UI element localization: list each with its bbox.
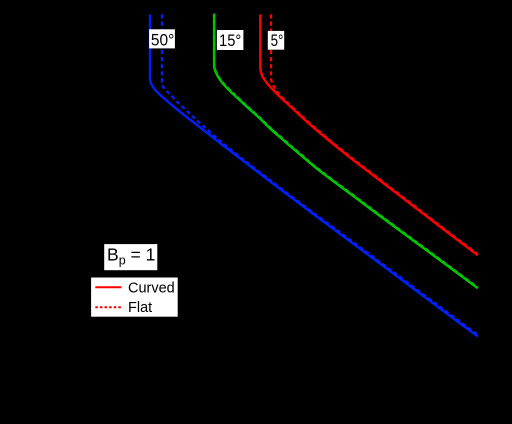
legend entry Curved — [95, 280, 174, 296]
curve: Curved solid blue alpha=50deg — [150, 14, 478, 336]
svg-text:Bp = 1: Bp = 1 — [107, 245, 155, 268]
legend box — [91, 278, 178, 317]
svg-text:50°: 50° — [151, 31, 174, 49]
curve: Flat dashed blue alpha=50deg — [162, 14, 478, 334]
label 5deg — [268, 31, 284, 50]
legend entry Flat — [95, 300, 152, 316]
curve: Flat dashed green alpha=15deg (overlaps solid) — [214, 14, 478, 288]
svg-text:Flat: Flat — [128, 300, 152, 316]
label 50deg — [149, 29, 175, 49]
label 15deg — [217, 30, 244, 50]
svg-text:5°: 5° — [271, 32, 284, 50]
curve: Flat dashed red alpha=5deg — [271, 14, 478, 254]
svg-text:Curved: Curved — [128, 280, 175, 296]
curve: Curved solid red alpha=5deg — [260, 14, 478, 255]
svg-text:15°: 15° — [219, 32, 241, 50]
curve: Curved solid green alpha=15deg — [214, 14, 478, 288]
label Bp = 1 — [104, 244, 157, 270]
